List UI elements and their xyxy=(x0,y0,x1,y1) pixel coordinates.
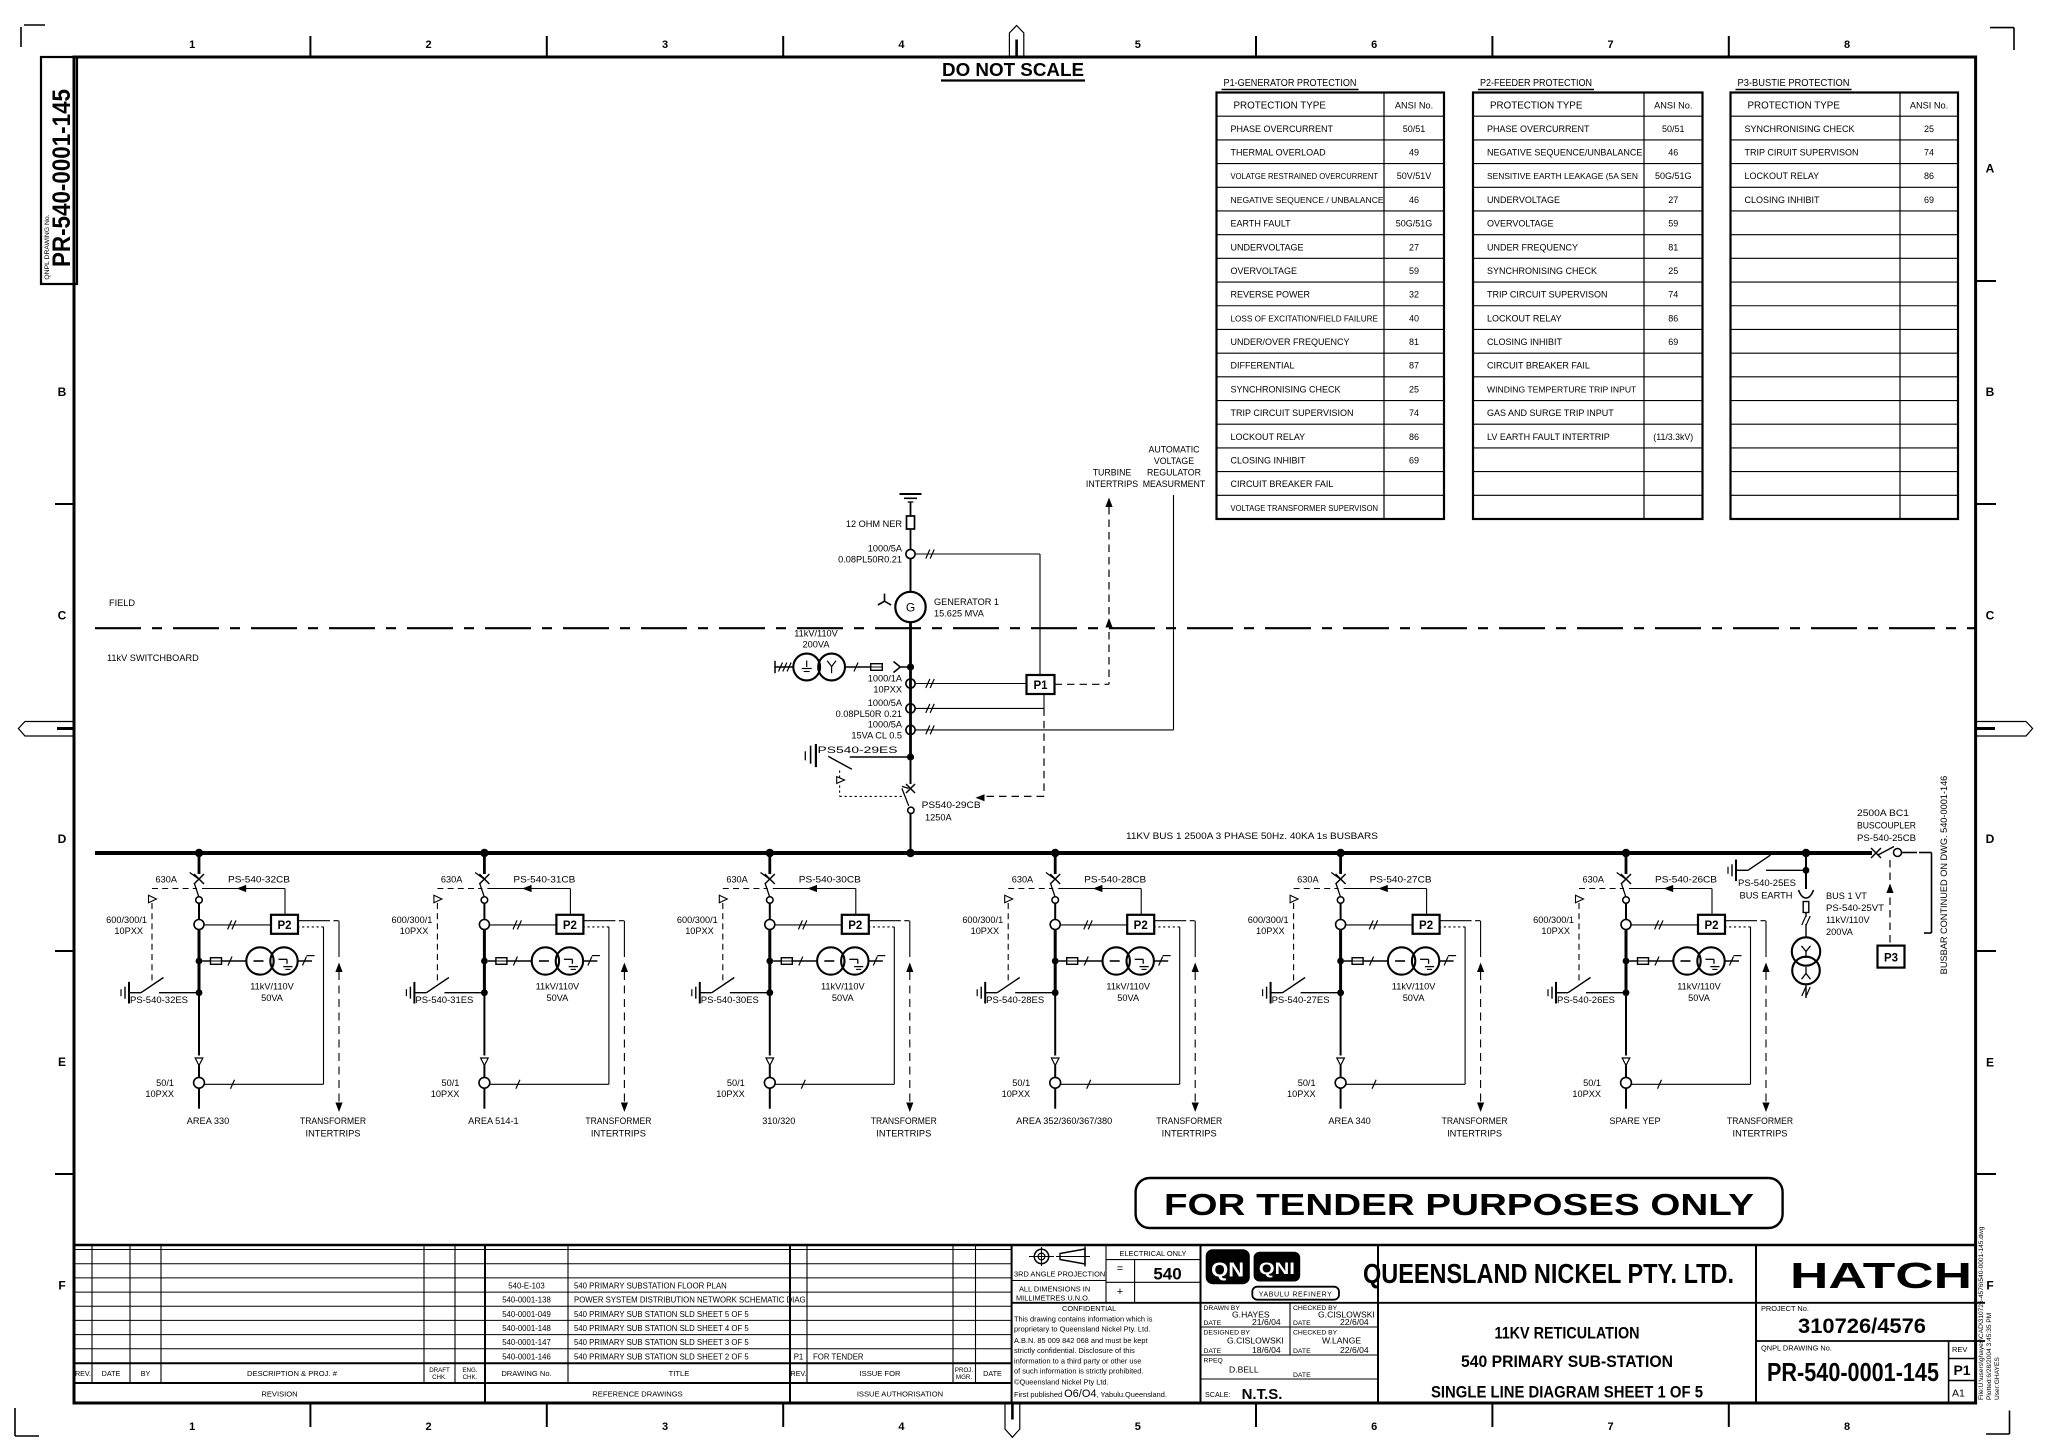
svg-text:11kV/110V: 11kV/110V xyxy=(794,629,838,639)
generator G1 circle xyxy=(895,592,925,622)
svg-text:REV.: REV. xyxy=(790,1369,806,1378)
svg-text:BY: BY xyxy=(141,1369,151,1378)
CT 50/1 10PXX xyxy=(1621,1077,1632,1088)
svg-text:BUSBAR CONTINUED ON DWG. 540-0: BUSBAR CONTINUED ON DWG. 540-0001-146 xyxy=(1939,776,1949,975)
centre match arrow left xyxy=(18,722,74,737)
svg-text:540-0001-049: 540-0001-049 xyxy=(502,1310,551,1319)
svg-text:QN: QN xyxy=(1211,1260,1244,1282)
relay P3 xyxy=(1878,946,1905,968)
svg-text:PS-540-25VT: PS-540-25VT xyxy=(1826,903,1884,913)
centre match arrow bottom xyxy=(1005,1403,1020,1437)
wire NER to CT xyxy=(910,529,912,549)
svg-text:2: 2 xyxy=(426,1421,432,1433)
svg-text:15.625 MVA: 15.625 MVA xyxy=(934,609,985,619)
svg-text:P3-BUSTIE PROTECTION: P3-BUSTIE PROTECTION xyxy=(1738,78,1850,89)
wire outgoing feeder xyxy=(1625,1088,1627,1109)
relay P2 of PS-540-32CB xyxy=(271,915,298,934)
node earth switch junction xyxy=(907,753,914,760)
feeder VT fuse xyxy=(488,960,496,962)
node earth switch tap xyxy=(1052,989,1059,996)
svg-text:50VA: 50VA xyxy=(1688,993,1711,1003)
node VT tap xyxy=(481,958,488,965)
svg-text:DATE: DATE xyxy=(1293,1320,1311,1327)
svg-text:3: 3 xyxy=(662,1421,668,1433)
node earth switch tap xyxy=(196,989,203,996)
relay P2 of PS-540-27CB xyxy=(1413,915,1440,934)
wire breaker to CT xyxy=(1625,903,1627,919)
generator VT left earthed lead xyxy=(774,661,776,673)
svg-text:540-0001-138: 540-0001-138 xyxy=(502,1296,551,1305)
svg-text:PR-540-0001-145: PR-540-0001-145 xyxy=(48,89,76,267)
svg-text:VOLTAGE: VOLTAGE xyxy=(1154,456,1194,466)
svg-text:6: 6 xyxy=(1371,39,1377,51)
svg-text:PROTECTION TYPE: PROTECTION TYPE xyxy=(1234,101,1327,112)
svg-text:10PXX: 10PXX xyxy=(1002,1089,1031,1099)
wire busbar to breaker PS-540-30CB xyxy=(768,853,771,874)
svg-text:INTERTRIPS: INTERTRIPS xyxy=(591,1129,646,1139)
svg-text:A: A xyxy=(1986,162,1995,176)
resistor 12 OHM NER xyxy=(907,516,915,529)
svg-text:46: 46 xyxy=(1409,195,1419,205)
node earth switch tap xyxy=(1623,989,1630,996)
svg-text:600/300/1: 600/300/1 xyxy=(392,915,433,925)
svg-text:INTERTRIPS: INTERTRIPS xyxy=(876,1129,931,1139)
wire CT 50/1 loop to relay P2 xyxy=(1061,1083,1180,1085)
svg-text:of such information is strictl: of such information is strictly prohibit… xyxy=(1014,1367,1143,1376)
svg-text:5: 5 xyxy=(1135,1421,1141,1433)
sheet corner crop mark top-left xyxy=(24,24,45,26)
left border zone ticks xyxy=(55,503,74,505)
svg-text:CHK.: CHK. xyxy=(432,1374,447,1381)
wire generator to VT junction xyxy=(909,622,912,667)
node VT tap xyxy=(1052,958,1059,965)
svg-text:11kV/110V: 11kV/110V xyxy=(536,982,580,992)
svg-text:THERMAL OVERLOAD: THERMAL OVERLOAD xyxy=(1231,147,1327,157)
feeder VT fuse xyxy=(773,960,781,962)
wire CT to relay P2 xyxy=(489,924,556,926)
svg-text:PS540-29ES: PS540-29ES xyxy=(818,745,898,755)
svg-text:TRIP CIRCUIT SUPERVISON: TRIP CIRCUIT SUPERVISON xyxy=(1487,290,1608,300)
svg-text:PS-540-28CB: PS-540-28CB xyxy=(1084,875,1146,885)
svg-text:HATCH: HATCH xyxy=(1790,1255,1972,1296)
svg-text:DATE: DATE xyxy=(1293,1348,1311,1355)
svg-text:8: 8 xyxy=(1844,1421,1850,1433)
svg-text:NEGATIVE SEQUENCE / UNBALANCE: NEGATIVE SEQUENCE / UNBALANCE xyxy=(1231,195,1384,205)
svg-text:ANSI No.: ANSI No. xyxy=(1395,101,1433,111)
svg-text:PS-540-28ES: PS-540-28ES xyxy=(986,995,1044,1005)
svg-text:600/300/1: 600/300/1 xyxy=(962,915,1003,925)
svg-text:PS540-29CB: PS540-29CB xyxy=(922,800,981,810)
svg-text:RPEQ: RPEQ xyxy=(1204,1358,1223,1365)
FOR TENDER PURPOSES ONLY stamp xyxy=(1136,1178,1783,1228)
svg-text:Plotted:6/28/2004 3:45:35 PM: Plotted:6/28/2004 3:45:35 PM xyxy=(1986,1313,1993,1400)
earth switch PS-540-30ES xyxy=(691,989,693,996)
svg-text:YABULU REFINERY: YABULU REFINERY xyxy=(1259,1291,1333,1298)
svg-text:50/1: 50/1 xyxy=(727,1078,745,1088)
svg-text:©Queensland Nickel Pty Ltd.: ©Queensland Nickel Pty Ltd. xyxy=(1014,1378,1109,1387)
svg-text:GAS AND SURGE TRIP INPUT: GAS AND SURGE TRIP INPUT xyxy=(1487,408,1614,418)
svg-text:ELECTRICAL ONLY: ELECTRICAL ONLY xyxy=(1120,1249,1187,1258)
svg-text:PROTECTION TYPE: PROTECTION TYPE xyxy=(1490,101,1583,112)
node generator VT junction xyxy=(907,663,914,670)
svg-text:VOLTAGE TRANSFORMER SUPERVISON: VOLTAGE TRANSFORMER SUPERVISON xyxy=(1231,503,1379,513)
feeder VT 11kV/110V 50VA xyxy=(817,947,844,974)
svg-text:ALL DIMENSIONS IN: ALL DIMENSIONS IN xyxy=(1019,1285,1090,1294)
transformer intertrips dashed line xyxy=(583,920,610,922)
CT 50/1 10PXX xyxy=(1335,1077,1346,1088)
wire feeder trunk xyxy=(483,930,486,993)
svg-text:LOCKOUT RELAY: LOCKOUT RELAY xyxy=(1231,432,1306,442)
svg-text:50VA: 50VA xyxy=(1117,993,1140,1003)
svg-text:10PXX: 10PXX xyxy=(431,1089,460,1099)
feeder VT 11kV/110V 50VA xyxy=(1673,947,1700,974)
wire breaker to CT xyxy=(769,903,771,919)
svg-text:600/300/1: 600/300/1 xyxy=(1533,915,1574,925)
svg-text:81: 81 xyxy=(1668,242,1678,252)
YABULU REFINERY badge xyxy=(1252,1287,1339,1300)
turbine symbol xyxy=(884,594,886,602)
svg-text:6: 6 xyxy=(1371,1421,1377,1433)
CT 50/1 10PXX xyxy=(1050,1077,1061,1088)
svg-text:50VA: 50VA xyxy=(547,993,570,1003)
svg-text:630A: 630A xyxy=(441,875,463,885)
svg-text:630A: 630A xyxy=(1297,875,1319,885)
svg-text:PS-540-25ES: PS-540-25ES xyxy=(1738,878,1796,888)
svg-text:7: 7 xyxy=(1608,39,1614,51)
transformer intertrips dashed line xyxy=(1154,920,1181,922)
earth switch to breaker interlock dashes xyxy=(839,771,841,797)
svg-text:74: 74 xyxy=(1409,408,1419,418)
svg-text:87: 87 xyxy=(1409,361,1419,371)
node bus earth tap xyxy=(1803,867,1810,874)
svg-text:DESCRIPTION & PROJ. #: DESCRIPTION & PROJ. # xyxy=(247,1369,338,1378)
svg-text:50/1: 50/1 xyxy=(1298,1078,1316,1088)
svg-text:DATE: DATE xyxy=(102,1369,121,1378)
bus VT PS-540-25VT circles xyxy=(1792,937,1820,965)
earth switch PS-540-31ES xyxy=(405,989,407,996)
svg-text:MGR.: MGR. xyxy=(956,1374,972,1381)
trip wire P2 to breaker PS-540-28CB xyxy=(1058,888,1141,890)
revision mini column xyxy=(1948,1341,1950,1403)
svg-text:10PXX: 10PXX xyxy=(145,1089,174,1099)
relay P2 of PS-540-30CB xyxy=(842,915,869,934)
svg-text:21/6/04: 21/6/04 xyxy=(1252,1317,1281,1327)
svg-text:INTERTRIPS: INTERTRIPS xyxy=(1086,479,1138,489)
svg-text:11kV SWITCHBOARD: 11kV SWITCHBOARD xyxy=(107,653,199,663)
circuit breaker PS-540-26CB 630A xyxy=(1621,874,1631,884)
wire outgoing feeder xyxy=(769,1088,771,1109)
svg-text:P3: P3 xyxy=(1884,953,1898,965)
wire breaker to CT xyxy=(1340,903,1342,919)
wire CT to relay P2 xyxy=(1060,924,1127,926)
svg-text:50/1: 50/1 xyxy=(156,1078,174,1088)
wire CT to relay P2 xyxy=(204,924,271,926)
svg-text:50/1: 50/1 xyxy=(1012,1078,1030,1088)
svg-text:CLOSING INHIBIT: CLOSING INHIBIT xyxy=(1487,337,1563,347)
CT 50/1 10PXX xyxy=(764,1077,775,1088)
svg-text:AUTOMATIC: AUTOMATIC xyxy=(1149,445,1201,455)
svg-text:P1-GENERATOR PROTECTION: P1-GENERATOR PROTECTION xyxy=(1224,78,1357,89)
bus VT withdrawable chevron xyxy=(1799,890,1814,898)
svg-text:REGULATOR: REGULATOR xyxy=(1147,468,1201,478)
svg-text:50V/51V: 50V/51V xyxy=(1397,171,1432,181)
wire busbar to breaker PS-540-26CB xyxy=(1625,853,1628,874)
CT 50/1 10PXX xyxy=(194,1077,205,1088)
feeder VT fuse xyxy=(202,960,210,962)
svg-text:4: 4 xyxy=(898,39,905,51)
svg-text:11kV/110V: 11kV/110V xyxy=(1677,982,1721,992)
wire CT to relay P2 xyxy=(1346,924,1413,926)
revision table columns xyxy=(91,1245,93,1383)
svg-text:P2-FEEDER PROTECTION: P2-FEEDER PROTECTION xyxy=(1480,78,1592,89)
interlock dashed line at PS-540-32CB xyxy=(152,888,197,890)
svg-text:630A: 630A xyxy=(156,875,178,885)
svg-text:OVERVOLTAGE: OVERVOLTAGE xyxy=(1487,219,1554,229)
CT 600/300/1 10PXX xyxy=(479,920,489,930)
svg-text:PHASE OVERCURRENT: PHASE OVERCURRENT xyxy=(1487,124,1590,134)
wire CT to relay P2 xyxy=(1631,924,1698,926)
svg-text:OVERVOLTAGE: OVERVOLTAGE xyxy=(1231,266,1298,276)
node earth switch tap xyxy=(1337,989,1344,996)
dashed trip wire P1 to circuit breaker xyxy=(1043,708,1045,796)
svg-text:10PXX: 10PXX xyxy=(971,926,1000,936)
svg-text:D: D xyxy=(58,832,67,846)
node feeder on busbar xyxy=(1336,849,1344,857)
svg-text:REV.: REV. xyxy=(75,1369,91,1378)
node VT tap xyxy=(1337,958,1344,965)
svg-text:PS-540-32CB: PS-540-32CB xyxy=(228,875,290,885)
svg-text:69: 69 xyxy=(1924,195,1934,205)
svg-text:P2: P2 xyxy=(1704,920,1718,932)
svg-text:PS-540-26CB: PS-540-26CB xyxy=(1655,875,1717,885)
right border zone ticks xyxy=(1976,280,1996,282)
svg-text:540 PRIMARY SUBSTATION FLOOR P: 540 PRIMARY SUBSTATION FLOOR PLAN xyxy=(574,1282,727,1291)
svg-text:AREA 340: AREA 340 xyxy=(1328,1116,1370,1126)
node feeder on busbar xyxy=(195,849,203,857)
wire buscoupler to busbar continuation xyxy=(1902,852,1918,854)
svg-text:SENSITIVE EARTH LEAKAGE (5A SE: SENSITIVE EARTH LEAKAGE (5A SEN xyxy=(1487,171,1638,181)
svg-text:22/6/04: 22/6/04 xyxy=(1340,1317,1369,1327)
svg-text:This drawing contains informat: This drawing contains information which … xyxy=(1014,1315,1153,1324)
svg-text:PS-540-25CB: PS-540-25CB xyxy=(1857,833,1916,843)
svg-text:LV EARTH FAULT INTERTRIP: LV EARTH FAULT INTERTRIP xyxy=(1487,432,1610,442)
svg-text:10PXX: 10PXX xyxy=(114,926,143,936)
svg-text:50VA: 50VA xyxy=(261,993,284,1003)
svg-text:PS-540-26ES: PS-540-26ES xyxy=(1557,995,1615,1005)
wire busbar to breaker PS-540-31CB xyxy=(483,853,486,874)
wire CT 50/1 loop to relay P2 xyxy=(490,1083,609,1085)
svg-text:File:U:\users\ghayes\CAD\31072: File:U:\users\ghayes\CAD\310726-4576\540… xyxy=(1978,1226,1985,1400)
svg-text:5: 5 xyxy=(1135,39,1141,51)
wire CT 1000/1A to relay P1 xyxy=(915,683,1026,685)
svg-text:SPARE YEP: SPARE YEP xyxy=(1609,1116,1660,1126)
reference drawings table column xyxy=(567,1245,569,1383)
svg-text:540 PRIMARY SUB STATION SLD SH: 540 PRIMARY SUB STATION SLD SHEET 4 OF 5 xyxy=(574,1324,749,1333)
feeder VT fuse xyxy=(1629,960,1637,962)
node feeder on busbar xyxy=(480,849,488,857)
drawn by / checked by table xyxy=(1201,1326,1379,1328)
svg-text:81: 81 xyxy=(1409,337,1419,347)
transformer intertrips dashed line xyxy=(869,920,896,922)
feeder VT 11kV/110V 50VA xyxy=(1388,947,1415,974)
earth switch PS-540-28ES xyxy=(976,989,978,996)
node VT tap xyxy=(1623,958,1630,965)
QNI logo xyxy=(1254,1252,1301,1282)
wire earth switch junction to breaker xyxy=(910,757,912,784)
svg-text:11kV/110V: 11kV/110V xyxy=(1392,982,1436,992)
svg-text:600/300/1: 600/300/1 xyxy=(106,915,147,925)
wire CT to automatic voltage regulator measurement xyxy=(915,729,1173,731)
wire feeder trunk xyxy=(768,930,771,993)
top-left drawing number box xyxy=(41,57,77,284)
svg-text:540-0001-148: 540-0001-148 xyxy=(502,1324,551,1333)
svg-text:74: 74 xyxy=(1668,290,1678,300)
node feeder on busbar xyxy=(1622,849,1630,857)
CT 1000/5A 0.08PL50R0.21 xyxy=(906,549,915,558)
svg-text:4: 4 xyxy=(898,1421,905,1433)
svg-text:+: + xyxy=(1117,1286,1123,1298)
svg-text:P2: P2 xyxy=(1419,920,1433,932)
svg-text:15VA CL 0.5: 15VA CL 0.5 xyxy=(851,731,902,741)
turbine intertrips dashed line with arrow xyxy=(1105,498,1112,508)
CT 1000/1A 10PXX xyxy=(906,679,915,688)
bus VT secondary lead xyxy=(1805,984,1807,998)
svg-text:540-0001-146: 540-0001-146 xyxy=(502,1352,551,1361)
svg-text:10PXX: 10PXX xyxy=(1256,926,1285,936)
svg-text:TURBINE: TURBINE xyxy=(1093,468,1132,478)
transformer intertrips dashed line xyxy=(1440,920,1467,922)
trip wire P2 to breaker PS-540-30CB xyxy=(773,888,856,890)
electrical only cell xyxy=(1105,1245,1107,1303)
CT 600/300/1 10PXX xyxy=(1621,920,1631,930)
svg-text:540 PRIMARY SUB STATION SLD SH: 540 PRIMARY SUB STATION SLD SHEET 5 OF 5 xyxy=(574,1310,749,1319)
svg-text:REV: REV xyxy=(1952,1345,1967,1354)
trip wire P2 to breaker PS-540-26CB xyxy=(1629,888,1712,890)
svg-text:C: C xyxy=(58,608,67,622)
withdrawable contact chevron xyxy=(894,662,901,668)
svg-text:27: 27 xyxy=(1409,242,1419,252)
trip wire P2 to breaker PS-540-31CB xyxy=(487,888,570,890)
svg-text:UNDERVOLTAGE: UNDERVOLTAGE xyxy=(1487,195,1560,205)
svg-text:N.T.S.: N.T.S. xyxy=(1242,1386,1283,1403)
svg-text:600/300/1: 600/300/1 xyxy=(1248,915,1289,925)
wire CT 50/1 loop to relay P2 xyxy=(1346,1083,1465,1085)
svg-text:1000/5A: 1000/5A xyxy=(868,544,903,554)
svg-text:1000/5A: 1000/5A xyxy=(868,698,903,708)
earth symbol at NER xyxy=(900,493,922,495)
wire to downstream CT xyxy=(1340,996,1342,1056)
svg-text:AREA 330: AREA 330 xyxy=(187,1116,229,1126)
wire busbar to bus earth junction xyxy=(1805,853,1807,889)
wire CT 1000/5A to relay P1 bottom xyxy=(915,707,1044,709)
wire breaker to busbar xyxy=(910,814,912,854)
trip wire P2 to breaker PS-540-27CB xyxy=(1344,888,1427,890)
feeder VT 11kV/110V 50VA xyxy=(532,947,559,974)
svg-text:strictly confidential. Disclos: strictly confidential. Disclosure of thi… xyxy=(1014,1346,1135,1355)
svg-text:DRAWING No.: DRAWING No. xyxy=(501,1369,551,1378)
svg-text:D.BELL: D.BELL xyxy=(1229,1365,1259,1375)
svg-text:49: 49 xyxy=(1409,147,1419,157)
svg-text:CIRCUIT BREAKER FAIL: CIRCUIT BREAKER FAIL xyxy=(1487,361,1590,371)
svg-text:25: 25 xyxy=(1668,266,1678,276)
svg-text:REVISION: REVISION xyxy=(261,1390,297,1399)
svg-text:C: C xyxy=(1986,609,1995,623)
svg-text:POWER SYSTEM DISTRIBUTION NETW: POWER SYSTEM DISTRIBUTION NETWORK SCHEMA… xyxy=(574,1296,808,1305)
svg-text:MILLIMETRES U.N.O.: MILLIMETRES U.N.O. xyxy=(1016,1294,1090,1303)
svg-text:FOR TENDER: FOR TENDER xyxy=(813,1352,864,1361)
wire CT 50/1 loop to relay P2 xyxy=(775,1083,894,1085)
dashed wire P1 to turbine intertrips line xyxy=(1055,683,1110,685)
QN logo xyxy=(1206,1249,1250,1284)
circuit breaker PS-540-30CB 630A xyxy=(765,874,775,884)
svg-text:3: 3 xyxy=(662,39,668,51)
svg-text:BUSCOUPLER: BUSCOUPLER xyxy=(1857,821,1916,831)
svg-text:10PXX: 10PXX xyxy=(400,926,429,936)
svg-text:UNDERVOLTAGE: UNDERVOLTAGE xyxy=(1231,242,1304,252)
svg-text:3RD ANGLE PROJECTION: 3RD ANGLE PROJECTION xyxy=(1014,1270,1105,1279)
svg-text:G: G xyxy=(906,601,915,615)
bus earth switch PS-540-25ES xyxy=(1727,867,1729,874)
svg-text:MEASURMENT: MEASURMENT xyxy=(1143,479,1206,489)
svg-text:BUS EARTH: BUS EARTH xyxy=(1740,891,1793,901)
svg-text:LOSS OF EXCITATION/FIELD FAILU: LOSS OF EXCITATION/FIELD FAILURE xyxy=(1231,313,1379,323)
svg-text:EARTH FAULT: EARTH FAULT xyxy=(1231,219,1292,229)
node VT tap xyxy=(196,958,203,965)
node earth switch tap xyxy=(766,989,773,996)
svg-text:LOCKOUT RELAY: LOCKOUT RELAY xyxy=(1745,171,1820,181)
svg-text:SYNCHRONISING CHECK: SYNCHRONISING CHECK xyxy=(1487,266,1597,276)
generator VT fuse link xyxy=(845,666,871,668)
svg-text:69: 69 xyxy=(1668,337,1678,347)
svg-text:DO NOT SCALE: DO NOT SCALE xyxy=(942,59,1084,80)
svg-text:86: 86 xyxy=(1409,432,1419,442)
svg-text:TRIP CIRUIT SUPERVISON: TRIP CIRUIT SUPERVISON xyxy=(1745,147,1859,157)
svg-text:TRANSFORMER: TRANSFORMER xyxy=(871,1116,937,1126)
relay P2 of PS-540-26CB xyxy=(1698,915,1725,934)
CT 50/1 10PXX xyxy=(479,1077,490,1088)
svg-text:CIRCUIT BREAKER FAIL: CIRCUIT BREAKER FAIL xyxy=(1231,479,1334,489)
svg-text:200VA: 200VA xyxy=(1826,927,1854,937)
bus VT fuse xyxy=(1803,902,1809,913)
wire outgoing feeder xyxy=(1340,1088,1342,1109)
node feeder on busbar xyxy=(1051,849,1059,857)
svg-text:8: 8 xyxy=(1844,39,1850,51)
svg-text:86: 86 xyxy=(1668,313,1678,323)
svg-text:TITLE: TITLE xyxy=(669,1369,690,1378)
svg-text:630A: 630A xyxy=(726,875,748,885)
sheet corner crop mark bottom-right xyxy=(2009,1411,2011,1435)
svg-text:540: 540 xyxy=(1153,1265,1181,1284)
svg-text:P1: P1 xyxy=(1033,680,1048,692)
wire to downstream CT xyxy=(769,996,771,1056)
svg-text:32: 32 xyxy=(1409,290,1419,300)
circuit breaker PS-540-32CB 630A xyxy=(194,874,204,884)
svg-text:25: 25 xyxy=(1409,384,1419,394)
svg-text:ENG.: ENG. xyxy=(462,1367,477,1374)
svg-text:INTERTRIPS: INTERTRIPS xyxy=(1162,1129,1217,1139)
CT 600/300/1 10PXX xyxy=(765,920,775,930)
11kV busbar BUS 1 xyxy=(95,851,1872,855)
wire to downstream CT xyxy=(483,996,485,1056)
circuit breaker PS540-29CB 1250A xyxy=(906,784,915,793)
svg-text:18/6/04: 18/6/04 xyxy=(1252,1345,1281,1355)
svg-text:INTERTRIPS: INTERTRIPS xyxy=(1733,1129,1788,1139)
svg-text:CONFIDENTIAL: CONFIDENTIAL xyxy=(1062,1304,1116,1313)
svg-text:AREA 352/360/367/380: AREA 352/360/367/380 xyxy=(1016,1116,1112,1126)
svg-text:25: 25 xyxy=(1924,124,1934,134)
svg-text:P1: P1 xyxy=(794,1352,804,1361)
feeder VT fuse xyxy=(1344,960,1352,962)
